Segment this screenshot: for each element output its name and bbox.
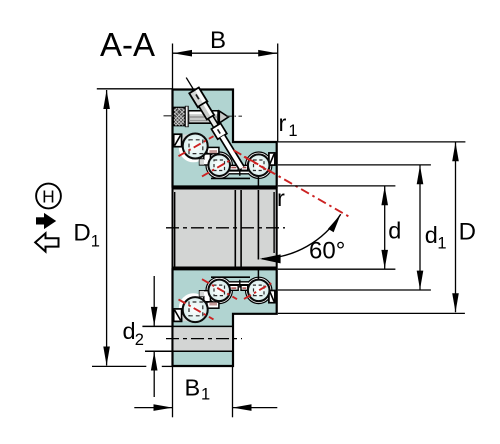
svg-text:H: H bbox=[42, 186, 55, 206]
svg-text:d: d bbox=[425, 222, 438, 248]
svg-text:1: 1 bbox=[201, 386, 210, 404]
svg-text:B: B bbox=[185, 375, 201, 401]
svg-text:r: r bbox=[279, 110, 287, 136]
svg-text:d: d bbox=[123, 318, 136, 344]
svg-text:1: 1 bbox=[288, 122, 297, 140]
svg-text:2: 2 bbox=[135, 331, 144, 349]
svg-text:B: B bbox=[210, 27, 226, 54]
svg-text:D: D bbox=[73, 220, 90, 247]
svg-text:1: 1 bbox=[91, 233, 100, 251]
svg-text:1: 1 bbox=[437, 235, 446, 253]
svg-text:D: D bbox=[459, 219, 476, 246]
svg-text:60°: 60° bbox=[309, 238, 345, 265]
svg-text:r: r bbox=[277, 185, 285, 211]
svg-text:A-A: A-A bbox=[100, 26, 155, 63]
svg-text:d: d bbox=[388, 218, 401, 244]
